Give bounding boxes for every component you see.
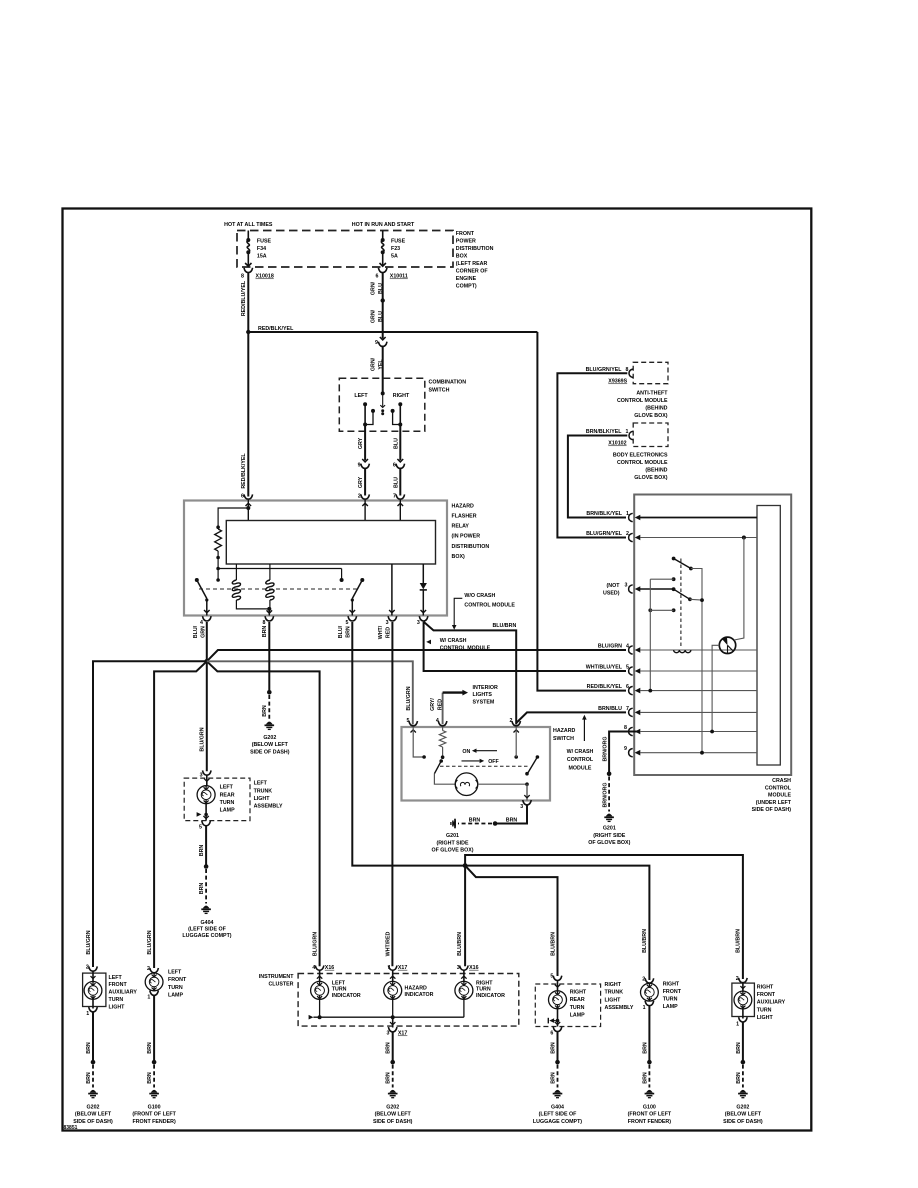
svg-text:(RIGHT SIDE: (RIGHT SIDE bbox=[436, 840, 469, 846]
connector pin 6 right rear bbox=[553, 1027, 562, 1032]
svg-text:HOT IN RUN AND START: HOT IN RUN AND START bbox=[352, 222, 415, 228]
ground G201 (crash module) bbox=[606, 814, 613, 817]
svg-text:BODY ELECTRONICS: BODY ELECTRONICS bbox=[613, 452, 668, 458]
combination switch LEFT contact bbox=[363, 402, 367, 406]
left front aux lamp bbox=[92, 971, 94, 982]
svg-text:BLU/GRN: BLU/GRN bbox=[200, 727, 206, 751]
svg-text:RIGHT: RIGHT bbox=[605, 982, 622, 988]
svg-text:WHT/: WHT/ bbox=[378, 625, 384, 639]
svg-text:GRY: GRY bbox=[358, 437, 364, 449]
svg-text:LEFT: LEFT bbox=[109, 975, 123, 981]
svg-text:FLASHER: FLASHER bbox=[452, 513, 477, 519]
svg-text:GLOVE BOX): GLOVE BOX) bbox=[634, 413, 667, 419]
svg-text:(BELOW LEFT: (BELOW LEFT bbox=[375, 1112, 412, 1118]
svg-text:W/ CRASH: W/ CRASH bbox=[567, 749, 594, 755]
svg-text:YEL: YEL bbox=[378, 359, 384, 370]
branch arrow (other filament) bbox=[197, 812, 202, 817]
svg-text:2: 2 bbox=[358, 494, 361, 500]
left rear turn lamp bbox=[206, 775, 208, 786]
svg-text:TURN: TURN bbox=[663, 997, 678, 1003]
svg-text:SIDE OF DASH): SIDE OF DASH) bbox=[73, 1119, 113, 1125]
svg-text:G100: G100 bbox=[148, 1104, 161, 1110]
svg-text:AUXILIARY: AUXILIARY bbox=[109, 990, 138, 996]
svg-text:7: 7 bbox=[393, 494, 396, 500]
wire to right front aux light bbox=[465, 855, 743, 979]
svg-text:GRN/: GRN/ bbox=[371, 357, 377, 371]
svg-text:BOX: BOX bbox=[456, 254, 468, 260]
svg-text:INDICATOR: INDICATOR bbox=[405, 992, 434, 998]
branch arrow (other filament) bbox=[547, 1018, 549, 1024]
svg-text:AUXILIARY: AUXILIARY bbox=[757, 1000, 786, 1006]
svg-text:LEFT: LEFT bbox=[168, 970, 182, 976]
cluster ground bus bbox=[309, 1015, 314, 1020]
ground G202 (right front aux) bbox=[740, 1090, 747, 1093]
svg-text:LUGGAGE COMPT): LUGGAGE COMPT) bbox=[533, 1119, 582, 1125]
svg-text:8: 8 bbox=[626, 367, 629, 373]
node splice on GRN/BLU bbox=[381, 298, 385, 302]
crash module pin 7 bbox=[629, 708, 633, 716]
svg-text:BRN: BRN bbox=[147, 1072, 153, 1084]
svg-text:5: 5 bbox=[626, 664, 629, 670]
svg-text:BRN: BRN bbox=[262, 626, 268, 638]
right front turn lamp bbox=[641, 983, 659, 1001]
wire BRN right front lamp to G100 bbox=[648, 1006, 650, 1063]
svg-text:CLUSTER: CLUSTER bbox=[268, 982, 293, 988]
svg-text:MODULE: MODULE bbox=[569, 766, 592, 772]
svg-text:LAMP: LAMP bbox=[168, 993, 183, 999]
svg-text:BRN: BRN bbox=[550, 1042, 556, 1054]
svg-text:SIDE OF DASH): SIDE OF DASH) bbox=[752, 807, 792, 813]
body electronics control module (dashed box) bbox=[633, 423, 668, 447]
svg-text:DISTRIBUTION: DISTRIBUTION bbox=[456, 246, 494, 252]
wire BLU combination switch to relay pin 7 bbox=[399, 425, 401, 461]
svg-text:6: 6 bbox=[241, 494, 244, 500]
connector X9369S pin 8 bbox=[629, 369, 633, 378]
wire BRN left rear lamp to G404 bbox=[205, 826, 207, 867]
svg-text:FUSE: FUSE bbox=[257, 239, 272, 245]
note W/ CRASH CONTROL MODULE (upper) bbox=[426, 640, 431, 645]
inline connector 9 on GRN/YEL bbox=[380, 337, 386, 340]
svg-text:SWITCH: SWITCH bbox=[553, 736, 574, 742]
svg-text:G404: G404 bbox=[201, 920, 214, 926]
svg-text:X17: X17 bbox=[398, 965, 407, 971]
svg-text:BLU/GRN: BLU/GRN bbox=[147, 930, 153, 954]
left front turn lamp bbox=[153, 972, 155, 974]
svg-text:(BEHIND: (BEHIND bbox=[645, 405, 667, 411]
svg-text:LIGHT: LIGHT bbox=[254, 796, 271, 802]
hazard switch internals bbox=[413, 727, 424, 757]
svg-text:BLU/GRN/YEL: BLU/GRN/YEL bbox=[586, 531, 623, 537]
svg-text:BRN: BRN bbox=[506, 817, 518, 823]
connector pin 1 left front lamp bbox=[150, 991, 159, 996]
svg-text:6: 6 bbox=[626, 684, 629, 690]
crash module coil on pin 4 row bbox=[674, 650, 691, 653]
svg-text:X9369S: X9369S bbox=[608, 379, 627, 385]
fuse F23 5A bbox=[382, 231, 384, 241]
wire BRN right front aux to G202 bbox=[742, 1022, 744, 1062]
svg-text:BRN: BRN bbox=[199, 883, 205, 895]
svg-text:2: 2 bbox=[509, 718, 512, 724]
relay pin 3 (bottom, WHT/RED) bbox=[388, 616, 397, 621]
svg-text:5: 5 bbox=[199, 825, 202, 831]
svg-text:G201: G201 bbox=[446, 833, 459, 839]
svg-text:RED: RED bbox=[438, 699, 444, 710]
svg-text:(BEHIND: (BEHIND bbox=[645, 467, 667, 473]
svg-text:BRN/BLU: BRN/BLU bbox=[598, 706, 622, 712]
svg-text:POWER: POWER bbox=[456, 239, 476, 245]
svg-text:G404: G404 bbox=[551, 1104, 564, 1110]
wire WHT/RED relay pin 3 to cluster hazard indicator bbox=[391, 622, 393, 966]
svg-text:BLU: BLU bbox=[378, 283, 384, 294]
svg-text:8: 8 bbox=[263, 620, 266, 626]
svg-text:X16: X16 bbox=[469, 965, 478, 971]
svg-text:BRN: BRN bbox=[469, 817, 481, 823]
svg-text:FRONT FENDER): FRONT FENDER) bbox=[132, 1119, 175, 1125]
svg-text:REAR: REAR bbox=[570, 997, 585, 1003]
svg-text:BRN: BRN bbox=[262, 705, 268, 717]
svg-text:GLOVE BOX): GLOVE BOX) bbox=[634, 475, 667, 481]
wire RED/BLK/YEL to crash module pin 6 bbox=[537, 332, 626, 691]
svg-text:(IN POWER: (IN POWER bbox=[452, 534, 481, 540]
svg-text:BRN: BRN bbox=[736, 1072, 742, 1084]
svg-text:BRN: BRN bbox=[86, 1042, 92, 1054]
svg-text:OF GLOVE BOX): OF GLOVE BOX) bbox=[588, 840, 630, 846]
hazard switch blade right bbox=[514, 755, 518, 759]
svg-text:GRY: GRY bbox=[358, 476, 364, 488]
svg-text:TURN: TURN bbox=[757, 1007, 772, 1013]
hazard switch lamp right wire bbox=[478, 783, 527, 785]
anti-theft control module (dashed box) bbox=[633, 362, 668, 383]
ground G201 (hazard switch) bbox=[453, 820, 456, 827]
connector pin 5 left rear lamp bbox=[202, 821, 211, 826]
wire to cluster right indicator bbox=[464, 866, 466, 967]
crash module pin 9 bbox=[629, 749, 633, 757]
svg-text:ASSEMBLY: ASSEMBLY bbox=[254, 803, 283, 809]
diode D1 bbox=[422, 564, 424, 583]
crash module pin 2 bbox=[629, 533, 633, 541]
relay pin 8 (bottom) bbox=[265, 616, 274, 621]
svg-text:LEFT: LEFT bbox=[332, 980, 346, 986]
connector X17 pin 3 (cluster ground) bbox=[392, 1017, 394, 1027]
relay switch left bbox=[195, 578, 199, 582]
svg-text:BLU/BRN: BLU/BRN bbox=[492, 623, 516, 629]
svg-text:6: 6 bbox=[376, 274, 379, 280]
svg-text:GRY/: GRY/ bbox=[430, 698, 436, 711]
hazard switch pin 4 bbox=[438, 721, 447, 726]
relay pin 3 (bottom, flasher output) bbox=[419, 616, 428, 621]
svg-text:1: 1 bbox=[147, 995, 150, 1001]
svg-text:BRN/ORG: BRN/ORG bbox=[603, 782, 609, 807]
svg-text:BLU/BRN: BLU/BRN bbox=[457, 932, 463, 956]
node BLU/BRN junction bbox=[463, 863, 468, 868]
svg-text:BRN: BRN bbox=[386, 1072, 392, 1084]
svg-text:7: 7 bbox=[626, 706, 629, 712]
svg-text:FRONT: FRONT bbox=[757, 992, 776, 998]
svg-text:INDICATOR: INDICATOR bbox=[332, 993, 361, 999]
node X junction BLU/GRN bbox=[204, 659, 209, 664]
svg-text:1: 1 bbox=[86, 1011, 89, 1017]
combination switch common contact bbox=[381, 391, 385, 395]
wire to right front turn lamp bbox=[465, 866, 649, 980]
svg-text:LIGHT: LIGHT bbox=[757, 1015, 774, 1021]
svg-text:BRN: BRN bbox=[346, 626, 352, 638]
wire BRN/ORG crash pin 8 to ground G201 bbox=[609, 732, 640, 774]
svg-text:WHT/RED: WHT/RED bbox=[385, 931, 391, 956]
crash module pin 5 bbox=[629, 667, 633, 675]
svg-text:(RIGHT SIDE: (RIGHT SIDE bbox=[593, 833, 626, 839]
connector pin 1 right front aux bbox=[739, 1017, 748, 1022]
svg-text:BRN/BLK/YEL: BRN/BLK/YEL bbox=[586, 429, 622, 435]
wire BRN/BLK/YEL body electronics to crash pin 1 bbox=[568, 436, 627, 518]
right trunk light assembly (dashed box) bbox=[535, 984, 600, 1027]
left turn indicator lamp bbox=[319, 970, 321, 981]
crash module internal switches bbox=[680, 559, 682, 648]
svg-text:BRN: BRN bbox=[550, 1072, 556, 1084]
svg-text:RIGHT: RIGHT bbox=[663, 982, 680, 988]
svg-text:CONTROL MODULE: CONTROL MODULE bbox=[617, 460, 668, 466]
svg-text:BRN: BRN bbox=[147, 1042, 153, 1054]
wire branch to crash module pin 4 BLU/GRN bbox=[207, 650, 626, 661]
svg-text:RED: RED bbox=[386, 627, 392, 638]
svg-text:INDICATOR: INDICATOR bbox=[476, 993, 505, 999]
svg-text:RED/BLU/YEL: RED/BLU/YEL bbox=[241, 280, 247, 316]
svg-text:3: 3 bbox=[520, 804, 523, 810]
svg-text:BLU/GRN: BLU/GRN bbox=[313, 932, 319, 956]
svg-text:RIGHT: RIGHT bbox=[393, 393, 410, 399]
svg-text:BLU/BRN: BLU/BRN bbox=[736, 929, 742, 953]
svg-text:INTERIOR: INTERIOR bbox=[473, 685, 498, 691]
relay pin 5 (bottom) bbox=[348, 616, 357, 621]
svg-text:BRN: BRN bbox=[199, 845, 205, 857]
relay internal IC block bbox=[226, 521, 435, 565]
svg-text:BRN: BRN bbox=[642, 1042, 648, 1054]
hazard switch indicator lamp bbox=[455, 773, 478, 796]
relay pin 7 (top) bbox=[396, 494, 405, 499]
svg-text:1: 1 bbox=[626, 429, 629, 435]
hazard indicator lamp bbox=[392, 970, 394, 981]
svg-text:TURN: TURN bbox=[332, 987, 347, 993]
svg-text:LAMP: LAMP bbox=[663, 1004, 678, 1010]
svg-text:X16: X16 bbox=[325, 965, 334, 971]
svg-text:4: 4 bbox=[436, 718, 439, 724]
svg-text:SIDE OF DASH): SIDE OF DASH) bbox=[250, 749, 290, 755]
wire BRN cluster to G202 bbox=[392, 1032, 394, 1062]
svg-text:BRN: BRN bbox=[386, 1042, 392, 1054]
svg-text:RIGHT: RIGHT bbox=[570, 989, 587, 995]
svg-text:OF GLOVE BOX): OF GLOVE BOX) bbox=[431, 847, 473, 853]
crash module pin 4 bbox=[629, 646, 633, 654]
ground G100 (right front) bbox=[646, 1090, 653, 1093]
svg-text:HOT AT ALL TIMES: HOT AT ALL TIMES bbox=[224, 222, 273, 228]
svg-text:BLU/GRN: BLU/GRN bbox=[406, 686, 412, 710]
svg-text:HAZARD: HAZARD bbox=[452, 503, 475, 509]
svg-text:FRONT: FRONT bbox=[456, 231, 475, 237]
svg-text:BLU/BRN: BLU/BRN bbox=[642, 929, 648, 953]
right front aux lamp bbox=[742, 983, 744, 992]
svg-text:FRONT: FRONT bbox=[663, 989, 682, 995]
svg-text:BLU/GRN: BLU/GRN bbox=[598, 643, 622, 649]
right turn indicator lamp bbox=[463, 970, 465, 981]
border frame bbox=[63, 209, 812, 1131]
svg-text:TRUNK: TRUNK bbox=[605, 990, 624, 996]
note W/ CRASH CONTROL MODULE (lower) bbox=[583, 718, 585, 742]
svg-text:SWITCH: SWITCH bbox=[429, 388, 450, 394]
svg-text:3: 3 bbox=[417, 620, 420, 626]
svg-text:RIGHT: RIGHT bbox=[476, 980, 493, 986]
svg-text:TRUNK: TRUNK bbox=[254, 788, 273, 794]
svg-text:GRN/: GRN/ bbox=[371, 309, 377, 323]
svg-text:LEFT: LEFT bbox=[220, 785, 234, 791]
mechanical link dashed bbox=[440, 765, 529, 767]
wire RED/BLK/YEL horizontal to crash module column bbox=[248, 331, 537, 333]
svg-text:WHT/BLU/YEL: WHT/BLU/YEL bbox=[586, 664, 623, 670]
svg-text:3: 3 bbox=[625, 583, 628, 589]
svg-text:W/ CRASH: W/ CRASH bbox=[440, 638, 467, 644]
wire branch to left front aux light bbox=[93, 661, 207, 967]
svg-text:ANTI-THEFT: ANTI-THEFT bbox=[636, 390, 668, 396]
wire BLU/BRN relay pin 5 right-turn bus bbox=[352, 622, 465, 866]
svg-text:INSTRUMENT: INSTRUMENT bbox=[259, 974, 294, 980]
svg-text:TURN: TURN bbox=[476, 987, 491, 993]
svg-text:G201: G201 bbox=[603, 825, 616, 831]
hazard switch blade left bbox=[434, 761, 441, 774]
wire to right rear turn lamp bbox=[465, 866, 557, 976]
svg-text:G202: G202 bbox=[736, 1104, 749, 1110]
svg-text:LIGHT: LIGHT bbox=[109, 1004, 126, 1010]
svg-text:1: 1 bbox=[626, 511, 629, 517]
svg-text:BRN/ORG: BRN/ORG bbox=[603, 736, 609, 761]
svg-text:LAMP: LAMP bbox=[570, 1012, 585, 1018]
relay internal junction to resistor bbox=[246, 506, 250, 510]
svg-text:(NOT: (NOT bbox=[607, 583, 621, 589]
wire BLU/GRN/YEL anti-theft to crash pin 2 bbox=[557, 373, 627, 537]
svg-text:83851: 83851 bbox=[64, 1125, 78, 1131]
inline connector 9 on GRY bbox=[362, 459, 368, 462]
hazard switch resistor bbox=[442, 727, 444, 731]
svg-text:TURN: TURN bbox=[220, 800, 235, 806]
svg-text:1: 1 bbox=[736, 1021, 739, 1027]
svg-text:TURN: TURN bbox=[570, 1005, 585, 1011]
svg-text:9: 9 bbox=[624, 746, 627, 752]
svg-text:DISTRIBUTION: DISTRIBUTION bbox=[452, 544, 490, 550]
front power distribution box (dashed) bbox=[237, 231, 453, 268]
connector pin 1 right front lamp bbox=[645, 1001, 654, 1006]
svg-text:(BELOW LEFT: (BELOW LEFT bbox=[252, 742, 289, 748]
wire GRY combination switch to relay pin 2 bbox=[364, 425, 366, 461]
svg-text:X10018: X10018 bbox=[256, 274, 274, 280]
mechanical link (dashed) bbox=[199, 588, 357, 590]
svg-text:1: 1 bbox=[643, 1005, 646, 1011]
connector X10011 pin 6 bbox=[378, 268, 387, 273]
svg-text:(LEFT SIDE OF: (LEFT SIDE OF bbox=[188, 926, 226, 932]
svg-text:G100: G100 bbox=[643, 1104, 656, 1110]
svg-text:9: 9 bbox=[358, 463, 361, 469]
svg-text:BLU/BRN: BLU/BRN bbox=[550, 932, 556, 956]
wire BRN right rear to G404 bbox=[557, 1032, 559, 1063]
svg-text:G202: G202 bbox=[87, 1104, 100, 1110]
svg-text:3: 3 bbox=[386, 1031, 389, 1037]
svg-text:FRONT: FRONT bbox=[109, 982, 128, 988]
svg-text:TURN: TURN bbox=[168, 985, 183, 991]
svg-text:5: 5 bbox=[406, 718, 409, 724]
svg-text:USED): USED) bbox=[603, 590, 620, 596]
svg-text:OFF: OFF bbox=[488, 759, 499, 765]
instrument cluster (dashed box) bbox=[298, 974, 519, 1027]
crash module pin 3 bbox=[629, 585, 633, 593]
inline connector 6 on BLU bbox=[397, 459, 403, 462]
left trunk light assembly (dashed box) bbox=[184, 778, 250, 821]
wire internal contact bus bbox=[218, 568, 342, 570]
svg-text:CONTROL MODULE: CONTROL MODULE bbox=[617, 398, 668, 404]
wire BRN relay pin 8 to ground G202 bbox=[268, 622, 270, 692]
ground G202 (left front aux) bbox=[90, 1090, 97, 1093]
svg-text:LEFT: LEFT bbox=[354, 393, 368, 399]
svg-text:LEFT: LEFT bbox=[254, 781, 268, 787]
relay output to pin 3 bbox=[391, 564, 393, 616]
svg-text:4: 4 bbox=[200, 620, 203, 626]
svg-text:FUSE: FUSE bbox=[391, 239, 406, 245]
svg-text:CRASH: CRASH bbox=[772, 778, 791, 784]
svg-text:SYSTEM: SYSTEM bbox=[473, 700, 495, 706]
svg-text:REAR: REAR bbox=[220, 792, 235, 798]
ground G100 (left front) bbox=[151, 1090, 158, 1093]
wire branch bus to left front lamp and cluster bbox=[154, 661, 207, 968]
relay coil 1 bbox=[235, 564, 237, 580]
wire BLU/GRN relay pin 4 down to left rear lamp bbox=[206, 622, 208, 771]
crash module pin 6 bbox=[629, 686, 633, 694]
svg-text:(BELOW LEFT: (BELOW LEFT bbox=[725, 1112, 762, 1118]
svg-text:G202: G202 bbox=[263, 735, 276, 741]
relay pin 2 (top) bbox=[361, 494, 370, 499]
svg-text:LUGGAGE COMPT): LUGGAGE COMPT) bbox=[182, 933, 231, 939]
right front auxiliary turn light box bbox=[732, 983, 755, 1016]
left front auxiliary turn light box bbox=[83, 973, 106, 1006]
hazard switch pin 2 bbox=[512, 721, 521, 726]
svg-text:CONTROL: CONTROL bbox=[567, 757, 594, 763]
svg-text:X10102: X10102 bbox=[608, 441, 626, 447]
crash module wire motor to pin 8 row bbox=[712, 645, 719, 731]
svg-text:BLU: BLU bbox=[393, 477, 399, 488]
svg-text:RELAY: RELAY bbox=[452, 523, 470, 529]
wire RED/BLK/YEL down to hazard flasher relay pin 6 bbox=[247, 332, 249, 497]
svg-text:(LEFT REAR: (LEFT REAR bbox=[456, 261, 488, 267]
svg-text:BLU/GRN/YEL: BLU/GRN/YEL bbox=[586, 367, 623, 373]
svg-text:TURN: TURN bbox=[109, 997, 124, 1003]
svg-text:SIDE OF DASH): SIDE OF DASH) bbox=[723, 1119, 763, 1125]
relay pin 4 (bottom) bbox=[203, 616, 212, 621]
svg-text:BRN: BRN bbox=[642, 1072, 648, 1084]
svg-text:BLU: BLU bbox=[378, 311, 384, 322]
wire RED/BLU/YEL from fuse F34 down to splice bbox=[247, 273, 249, 332]
wire BRN/BLU hazard to crash pin 7 bbox=[516, 712, 626, 723]
svg-text:ENGINE: ENGINE bbox=[456, 276, 477, 282]
svg-text:15A: 15A bbox=[257, 254, 267, 260]
svg-text:X10011: X10011 bbox=[390, 274, 408, 280]
svg-text:BLU/GRN: BLU/GRN bbox=[86, 930, 92, 954]
connector pin 3 left rear lamp bbox=[203, 770, 212, 775]
wire BRN to G202 bbox=[92, 1012, 94, 1062]
svg-text:BLU/: BLU/ bbox=[338, 625, 344, 638]
svg-text:COMBINATION: COMBINATION bbox=[429, 380, 467, 386]
svg-text:CORNER OF: CORNER OF bbox=[456, 269, 489, 275]
svg-text:9: 9 bbox=[375, 340, 378, 346]
node splice RED/BLK/YEL bbox=[246, 330, 250, 334]
wire GRN/YEL into combination switch bbox=[382, 346, 384, 394]
svg-text:8: 8 bbox=[624, 725, 627, 731]
svg-text:LAMP: LAMP bbox=[220, 808, 235, 814]
hazard switch pin 3 (bottom) bbox=[524, 795, 529, 798]
svg-text:COMPT): COMPT) bbox=[456, 284, 477, 290]
